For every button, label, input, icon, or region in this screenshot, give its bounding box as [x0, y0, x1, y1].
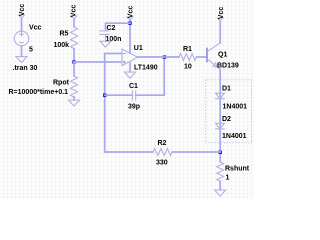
- svg-text:1N4001: 1N4001: [223, 104, 248, 111]
- junction node R2/Rshunt: [219, 151, 222, 154]
- svg-text:R5: R5: [60, 31, 69, 38]
- ground (below Rshunt): [215, 190, 226, 196]
- svg-text:.tran 30: .tran 30: [13, 65, 38, 72]
- svg-text:U1: U1: [134, 45, 143, 52]
- svg-text:D1: D1: [222, 86, 231, 93]
- junction node C2 tap: [128, 22, 131, 25]
- resistor Rshunt: [217, 162, 224, 181]
- wire Rpot to ground: [73, 97, 75, 100]
- junction node output: [163, 55, 166, 58]
- svg-text:Vcc: Vcc: [71, 5, 78, 18]
- diode D1: [216, 93, 225, 99]
- junction node C1/feedback: [103, 94, 106, 97]
- wire feedback to R2: [105, 151, 153, 153]
- svg-text:330: 330: [156, 159, 168, 166]
- svg-text:Vcc: Vcc: [29, 25, 42, 32]
- ground (below V1): [16, 57, 27, 63]
- svg-text:100k: 100k: [54, 42, 70, 49]
- svg-text:R2: R2: [158, 140, 167, 147]
- dashed selection box: [206, 80, 252, 143]
- wire R1 to Q1 base: [197, 56, 207, 58]
- wire node to Rpot: [73, 62, 75, 76]
- transistor Q1: [207, 43, 220, 70]
- svg-text:Vcc: Vcc: [19, 4, 26, 17]
- svg-text:Rshunt: Rshunt: [225, 166, 250, 173]
- resistor R2: [153, 149, 172, 156]
- diode D2: [216, 123, 225, 129]
- wire flag to R5: [73, 19, 75, 27]
- wire C1 to output node: [136, 57, 165, 95]
- wire Q1 collector up: [219, 21, 221, 43]
- svg-text:5: 5: [29, 47, 33, 54]
- resistor R1: [179, 54, 197, 61]
- flag Vcc (above R5): [71, 5, 78, 19]
- flag Vcc (above Q1): [217, 7, 225, 21]
- junction node R5/Rpot: [72, 60, 75, 63]
- svg-text:1: 1: [226, 175, 230, 182]
- wire node to C1: [105, 94, 133, 96]
- voltage source V1: [14, 31, 29, 46]
- op-amp U1: [122, 49, 138, 66]
- wire V1 bottom to ground: [21, 46, 23, 57]
- svg-text:1N4001: 1N4001: [222, 133, 247, 140]
- svg-text:C2: C2: [107, 25, 116, 32]
- wire flag to V1 top: [21, 18, 23, 31]
- svg-text:C1: C1: [129, 83, 138, 90]
- svg-text:Vcc: Vcc: [127, 6, 134, 19]
- capacitor C1: [132, 91, 135, 100]
- svg-text:Rpot: Rpot: [53, 80, 70, 87]
- wire node to op-amp +input: [74, 61, 122, 63]
- svg-text:Vcc: Vcc: [218, 7, 225, 20]
- flag Vcc (above op-amp): [127, 6, 134, 20]
- wire op-amp output to R1: [138, 56, 180, 58]
- wire R5 to node: [73, 49, 75, 62]
- svg-text:BD139: BD139: [217, 63, 239, 70]
- svg-text:LT1490: LT1490: [134, 64, 158, 71]
- svg-text:R=10000*time+0.1: R=10000*time+0.1: [9, 89, 69, 96]
- ground (below Rpot): [69, 100, 80, 106]
- svg-text:10: 10: [184, 64, 192, 71]
- svg-text:R1: R1: [183, 46, 192, 53]
- svg-text:Q1: Q1: [218, 52, 227, 59]
- flag Vcc (top-left): [19, 4, 26, 18]
- wire op-amp V- to ground: [129, 63, 131, 72]
- wire R2 to node: [172, 151, 220, 153]
- wire Vcc flag to op-amp V+: [129, 20, 131, 53]
- capacitor C2: [100, 31, 109, 42]
- wire Rshunt to ground: [219, 181, 221, 190]
- svg-text:D2: D2: [222, 116, 231, 123]
- ground (below C2): [100, 41, 111, 47]
- wire Q1 emitter through D1/D2 to R2 node: [219, 70, 221, 163]
- wire op-amp -input: [105, 54, 122, 153]
- svg-text:39p: 39p: [128, 104, 140, 111]
- svg-text:100n: 100n: [106, 36, 122, 43]
- resistor R5: [71, 27, 78, 49]
- wire C2 tap: [106, 23, 131, 30]
- ground (below op-amp): [125, 72, 136, 78]
- resistor Rpot: [71, 76, 78, 97]
